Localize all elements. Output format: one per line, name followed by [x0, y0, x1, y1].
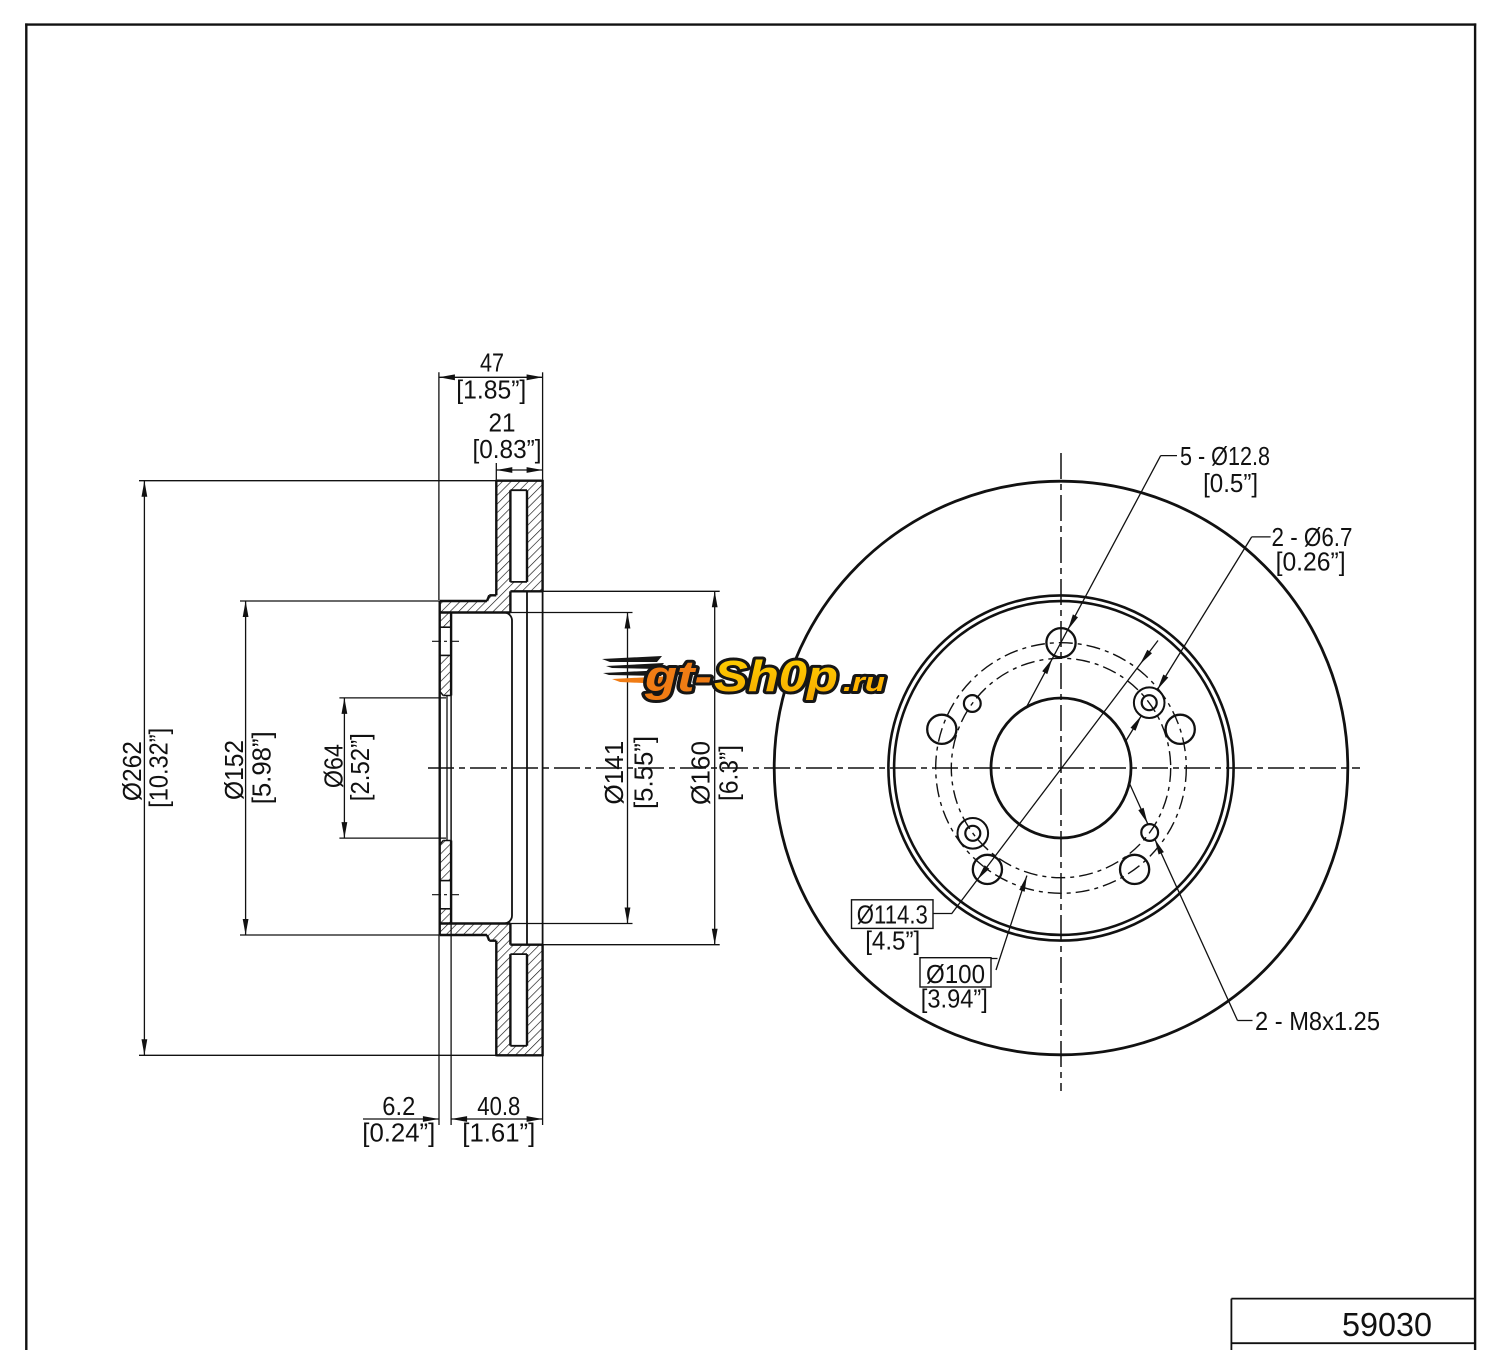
- leader 2-D6.7: [1252, 536, 1271, 538]
- dimension D152 [5.98"]: [240, 600, 440, 602]
- dimension 21 [0.83"]: [495, 463, 497, 480]
- svg-text:Ø64: Ø64: [318, 744, 348, 788]
- svg-text:5 - Ø12.8: 5 - Ø12.8: [1180, 441, 1270, 471]
- dimension 47 [1.85"]: [438, 372, 440, 600]
- hole D6.7 with chamfer at 216.5 deg: [958, 818, 989, 849]
- bolt hole D12.8 at 234 deg: [973, 855, 1002, 884]
- section outline: [496, 480, 542, 482]
- threaded hole M8x1.25 at 144 deg: [964, 695, 981, 712]
- svg-text:[5.55”]: [5.55”]: [628, 736, 658, 809]
- dimension 6.2 [0.24"]: [438, 935, 440, 1125]
- dimension D262 [10.32"]: [139, 480, 496, 482]
- front view: outer circle: [774, 481, 1348, 1055]
- svg-text:[10.32”]: [10.32”]: [144, 728, 174, 808]
- dimension 40.8 [1.61"]: [451, 1118, 542, 1120]
- svg-text:Ø160: Ø160: [686, 741, 716, 805]
- svg-text:[5.98”]: [5.98”]: [246, 731, 276, 804]
- horizontal centerline: [428, 767, 1360, 769]
- svg-text:[0.5”]: [0.5”]: [1203, 468, 1258, 498]
- svg-text:gt-: gt-: [644, 652, 712, 701]
- hat ring circles: [888, 595, 1233, 940]
- bolt hole D12.8 at 18 deg: [1166, 715, 1195, 744]
- threaded hole M8x1.25 at 324 deg: [1141, 824, 1158, 841]
- center bore circle: [991, 698, 1131, 838]
- svg-text:Ø152: Ø152: [219, 740, 249, 800]
- hole centerlines: [432, 640, 459, 642]
- svg-text:[1.85”]: [1.85”]: [456, 375, 526, 405]
- svg-text:47: 47: [480, 347, 504, 377]
- svg-text:[6.3”]: [6.3”]: [714, 745, 744, 801]
- brake disc cross-section: hatched areas: [440, 481, 511, 613]
- dimension D141 [5.55"]: [510, 612, 632, 614]
- dimension D160 [6.3"]: [543, 590, 720, 592]
- circle D100 (dash-dot): [951, 658, 1170, 877]
- D160 aperture edge (plate inner face): [526, 591, 528, 944]
- bolt hole cut through mounting flange: [440, 626, 451, 628]
- svg-text:[2.52”]: [2.52”]: [345, 733, 375, 801]
- hat cavity silhouette: [504, 613, 512, 924]
- dimension D64 [2.52"]: [339, 697, 446, 699]
- svg-text:[3.94”]: [3.94”]: [921, 984, 988, 1014]
- bolt hole D12.8 at 162 deg: [927, 715, 956, 744]
- hole D6.7 with chamfer at 36.5 deg: [1134, 687, 1165, 718]
- leader 2-M8x1.25: [1238, 1020, 1253, 1022]
- svg-text:[4.5”]: [4.5”]: [865, 926, 920, 956]
- bolt hole D12.8 at 306 deg: [1120, 855, 1149, 884]
- svg-text:[0.83”]: [0.83”]: [473, 434, 542, 464]
- leader D114.3 boxed: [852, 900, 934, 929]
- svg-text:[0.24”]: [0.24”]: [362, 1118, 435, 1148]
- D160 aperture edge (plate outer face): [542, 591, 544, 944]
- svg-text:Sh0p: Sh0p: [714, 652, 838, 701]
- leader D100 boxed: [920, 958, 991, 987]
- svg-text:[1.61”]: [1.61”]: [462, 1118, 535, 1148]
- svg-text:40.8: 40.8: [477, 1091, 520, 1121]
- leader 5-D12.8: [1161, 455, 1177, 457]
- svg-text:21: 21: [489, 407, 516, 437]
- title block: [1231, 1298, 1475, 1300]
- svg-text:[0.26”]: [0.26”]: [1276, 547, 1346, 577]
- gt-shop.ru watermark: [602, 652, 886, 701]
- svg-text:.ru: .ru: [843, 667, 886, 697]
- svg-text:2 - M8x1.25: 2 - M8x1.25: [1255, 1006, 1380, 1036]
- svg-text:Ø141: Ø141: [599, 741, 629, 805]
- svg-text:6.2: 6.2: [382, 1091, 415, 1121]
- svg-text:59030: 59030: [1342, 1306, 1432, 1343]
- vertical centerline: [1060, 453, 1062, 1091]
- bolt hole D12.8 at 90 deg: [1046, 628, 1075, 657]
- bolt circle D114.3 (dash-dot): [936, 643, 1187, 894]
